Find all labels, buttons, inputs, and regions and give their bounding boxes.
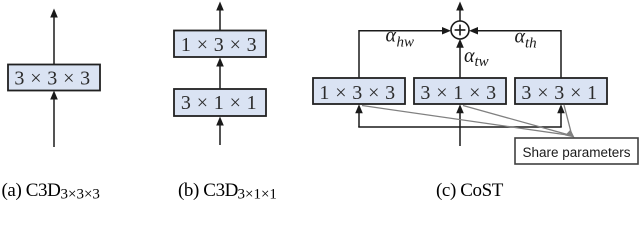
wire right branch to sum xyxy=(475,31,561,78)
svg-text:1 × 3 × 3: 1 × 3 × 3 xyxy=(319,82,395,104)
wire middle branch to sum xyxy=(459,45,461,78)
panel (c) input wire xyxy=(459,111,461,146)
panel (a) output arrowhead xyxy=(50,9,58,18)
panel (b) connector arrowhead xyxy=(216,58,224,67)
svg-text:Share parameters: Share parameters xyxy=(522,145,630,160)
conv box 3x3x3 (panel a) xyxy=(8,65,100,91)
svg-text:α: α xyxy=(386,25,397,47)
conv box 3x1x1 (panel b bottom) xyxy=(174,89,266,116)
panel (c) output arrowhead xyxy=(456,2,464,11)
svg-text:th: th xyxy=(525,35,537,51)
left bus riser wire xyxy=(358,111,360,127)
svg-text:3 × 1 × 1: 3 × 1 × 1 xyxy=(181,92,257,114)
share pointer wire from middle box xyxy=(463,106,571,136)
panel (b) input wire xyxy=(219,123,221,145)
panel (b) input arrowhead xyxy=(216,117,224,126)
right branch arrowhead xyxy=(469,27,478,35)
conv box 1x3x3 (panel c left) xyxy=(313,78,405,104)
svg-text:(b) C3D: (b) C3D xyxy=(178,180,238,200)
panel (a) input arrowhead xyxy=(50,91,58,100)
panel (c) output wire xyxy=(459,9,461,21)
panel (b) output wire xyxy=(219,9,221,31)
share pointer wire from right box xyxy=(564,105,572,134)
summation node circle xyxy=(451,21,469,39)
svg-text:α: α xyxy=(464,45,475,67)
share pointer wire from left box xyxy=(362,106,571,136)
middle branch arrowhead xyxy=(456,39,464,48)
svg-text:3 × 1 × 3: 3 × 1 × 3 xyxy=(420,82,496,104)
panel (a) output wire xyxy=(53,16,55,65)
svg-text:3 × 3 × 3: 3 × 3 × 3 xyxy=(14,68,90,90)
svg-text:3 × 3 × 1: 3 × 3 × 1 xyxy=(521,82,597,104)
plus sign xyxy=(459,25,461,36)
right bus riser arrowhead xyxy=(557,104,565,113)
svg-text:3×3×3: 3×3×3 xyxy=(61,187,100,201)
svg-text:(c) CoST: (c) CoST xyxy=(436,180,504,200)
share pointer arrowhead xyxy=(565,130,575,138)
wire left branch to sum xyxy=(359,31,445,78)
panel (c) input arrowhead xyxy=(456,104,464,113)
panel (b) output arrowhead xyxy=(216,2,224,11)
panel (b) connector wire xyxy=(219,64,221,89)
conv box 3x1x3 (panel c middle) xyxy=(414,78,506,104)
conv box 1x3x3 (panel b top) xyxy=(174,31,266,58)
svg-text:hw: hw xyxy=(397,35,415,51)
left branch arrowhead xyxy=(442,27,451,35)
svg-text:tw: tw xyxy=(475,54,489,70)
svg-text:(a) C3D: (a) C3D xyxy=(2,180,61,200)
svg-text:1 × 3 × 3: 1 × 3 × 3 xyxy=(181,34,257,56)
share parameters box xyxy=(515,138,638,164)
svg-text:α: α xyxy=(515,25,526,47)
right bus riser wire xyxy=(560,111,562,127)
svg-text:3×1×1: 3×1×1 xyxy=(238,187,277,201)
panel (a) input wire xyxy=(53,97,55,147)
conv box 3x3x1 (panel c right) xyxy=(515,78,607,104)
input bus horizontal wire xyxy=(358,126,562,128)
left bus riser arrowhead xyxy=(355,104,363,113)
